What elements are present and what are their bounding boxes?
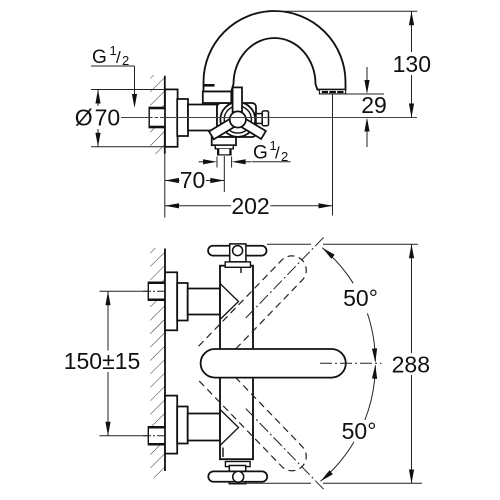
top index tick [240,268,242,274]
arrows dim 130 [409,11,414,25]
upper inlet pipe [188,289,220,315]
arrows dim Ø70 [95,90,100,104]
dim 288 top extension line [267,243,418,245]
dim 150 line [107,291,109,436]
lower inlet chevron [220,410,239,446]
swivel spout (solid, plan) [201,349,346,378]
svg-text:50°: 50° [343,285,378,311]
swivel arc seg3 [365,366,376,421]
dim 202 line [165,205,333,207]
valve face circle [220,102,255,137]
dim 288 line [411,244,413,483]
arrow G1/2 leader down [132,94,137,108]
arrows dim 202 [165,203,179,208]
valve body block [217,103,256,137]
wall extension line down to dimensions [164,154,166,218]
swivel arc seg2 [367,313,375,361]
S-union nipple through wall (side view) [149,107,165,129]
svg-text:2: 2 [281,149,288,164]
top handle collar [225,262,250,267]
lower escutcheon (plan) [165,396,177,454]
svg-text:70: 70 [180,167,206,193]
dim 130 line [411,11,413,117]
dim 29 reference line (spout tip) [346,93,384,95]
spout centerline [320,362,382,364]
bottom handle hub circle [233,471,244,482]
arrows dim 150 [105,291,110,305]
svg-text:G: G [253,143,268,164]
arrows dim 29 [364,80,369,94]
arrow swivel arc bottom end [319,470,333,483]
dim 130 top reference line [283,10,417,12]
svg-text:2: 2 [122,53,129,68]
svg-text:G: G [92,47,107,68]
bottom handle hub block [229,466,245,484]
arrow swivel arc mid lower [372,365,378,379]
white gap for text 202 [231,194,271,217]
escutcheon step [177,99,188,136]
svg-text:202: 202 [231,193,269,219]
wall hatching (top view) [150,75,165,154]
faucet body column [220,266,253,460]
aerator at spout tip [319,90,345,94]
top handle hub block [230,244,246,262]
upper nipple centerline [143,290,167,292]
top handle bar [208,246,266,256]
extension line from spout outlet [332,94,334,216]
dim 288 bottom extension line [246,482,422,484]
cross handle lower-right spoke [235,116,265,139]
svg-text:50°: 50° [342,418,377,444]
dim Ø70 line segments [97,90,99,107]
escutcheon Ø70 (side view) [165,89,178,146]
white gap for text 130 [393,52,432,75]
bottom index tick [222,448,224,458]
lower nipple centerline [143,435,167,437]
svg-text:Ø 70: Ø 70 [75,105,120,131]
inlet pipe to valve body [188,105,217,131]
dashed spout position upper (+50°) [199,227,335,366]
G1/2 bottom arrows tail lines [199,161,205,163]
arrow swivel arc top end [321,246,335,259]
G 1/2 leader line [134,66,136,97]
horizontal centerline (top view) [121,117,417,119]
lower S-union nipple (plan) [148,426,165,446]
wall face line (top view) [164,76,166,154]
svg-text:/: / [116,48,121,67]
dim Ø70 extension lines [91,89,165,91]
cross handle lower-left spoke [209,115,240,139]
outlet nut [215,145,233,149]
white gap for text 288 [392,353,430,375]
swivel arc seg4 [321,442,355,481]
upper S-union nipple (plan) [148,282,165,302]
spout (arc tube) [204,11,346,92]
top handle hub circle [233,246,243,256]
outlet edge extension lines [216,157,218,168]
bottom handle collar [225,462,250,467]
valve middle ring [224,106,251,133]
wall hatching (bottom view) [150,248,165,478]
lower escutcheon step [177,407,188,444]
white gap for text 70 [180,170,207,190]
svg-text:130: 130 [393,51,431,77]
wall face line (bottom view) [164,249,166,472]
arrows dim 288 [409,244,414,258]
upper escutcheon (plan) [165,272,177,330]
upper inlet chevron [220,284,239,320]
handle hub circle [230,111,246,127]
gap where dashed centerline crosses [311,243,323,246]
arrows G1/2 outlet [203,159,217,164]
svg-text:/: / [275,144,280,163]
svg-text:288: 288 [392,352,430,378]
arrows dim 70 [165,178,179,183]
arrow swivel arc mid upper [372,348,378,362]
gap where dashed centerline crosses [311,482,323,485]
bottom handle bar [208,471,267,481]
outlet center extension line [223,156,225,192]
cross handle upper spoke [233,87,242,112]
white gap for text 150±15 [63,351,142,373]
upper escutcheon step [177,283,188,321]
swivel arc seg1 [322,248,353,283]
label G 1/2 (top left) underline [91,65,135,67]
spout base joint mark (thick bar) [204,84,215,87]
side knob stub [256,114,262,124]
spout base collar [203,92,232,104]
centerline dash gaps in nipple [153,117,155,119]
svg-text:29: 29 [361,92,387,118]
dim 70 line [165,180,224,182]
outlet foot [212,137,236,145]
svg-text:150±15: 150±15 [64,348,141,374]
dim 150 extension lines [100,290,149,292]
label G 1/2 (bottom) underline [252,161,291,163]
shower outlet nipple G1/2 [217,149,232,155]
side knob cap [262,111,268,126]
dim 29 arrows tails [366,67,368,81]
dashed spout position lower (-50°) [199,361,335,500]
lower inlet pipe [188,414,220,441]
